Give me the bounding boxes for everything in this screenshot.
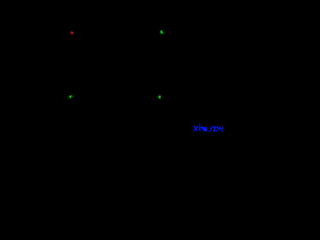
zigzag glyph cluster: [217, 127, 221, 131]
bar-word cluster: [201, 127, 207, 128]
slash: [209, 126, 212, 131]
green fluorescent spot (bottom-right panel): [157, 95, 162, 100]
glyph X: [194, 126, 198, 131]
I-beam glyph: [213, 126, 217, 127]
green fluorescent spot (top-right panel): [159, 30, 164, 35]
green fluorescent spot (bottom-left panel): [68, 95, 73, 99]
red fluorescent spot (top-left panel): [70, 31, 75, 35]
blue watermark text bottom-right: [194, 124, 224, 132]
glyph i (dot + stem): [199, 124, 200, 125]
